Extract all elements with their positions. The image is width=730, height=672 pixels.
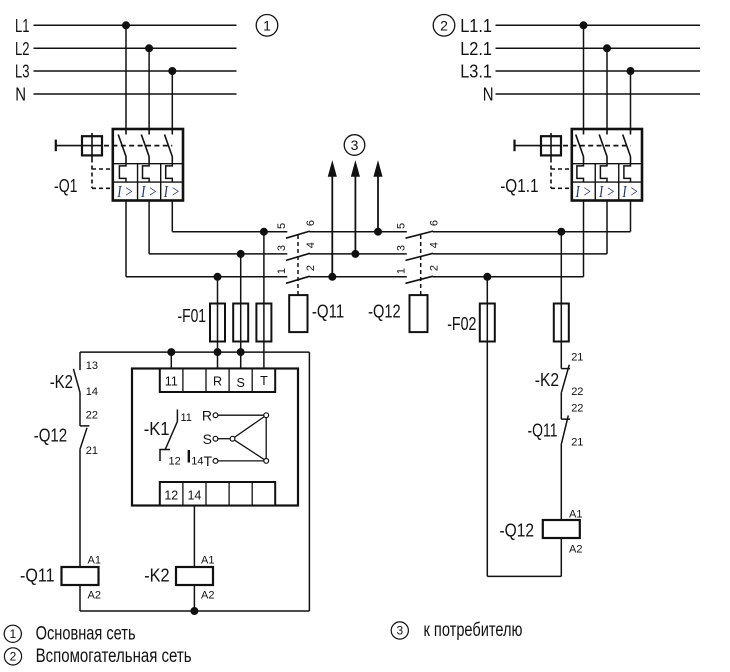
svg-text:L1: L1 — [15, 16, 30, 36]
net label L3.1 (auxiliary) — [460, 62, 492, 82]
wire L1.1 drop to Q1.1 — [583, 25, 585, 129]
label -Q11 drive — [312, 301, 344, 321]
node arrow 1 junction — [329, 273, 336, 280]
net label L3 (main) — [15, 62, 30, 82]
wire L1.1 aux — [496, 24, 701, 26]
node L2 junction — [146, 45, 153, 52]
svg-text:12: 12 — [164, 488, 178, 502]
svg-text:-K2: -K2 — [50, 372, 73, 392]
svg-text:6: 6 — [428, 220, 440, 226]
marker circle 3 — [344, 135, 365, 156]
K1 contact blade — [165, 422, 177, 451]
svg-text:-Q11: -Q11 — [528, 421, 558, 441]
fuse right control — [554, 304, 569, 342]
legend circle 2 — [4, 648, 21, 665]
svg-text:-F02: -F02 — [447, 314, 476, 334]
net label N (auxiliary) — [483, 85, 494, 105]
svg-text:21: 21 — [571, 436, 583, 448]
svg-text:2: 2 — [305, 265, 317, 271]
contactor Q11 drive — [289, 295, 307, 332]
wire Q1 pole1 to row2 — [126, 201, 287, 277]
contactor Q12 contact 5-6 — [396, 220, 441, 238]
wire F02 branch — [486, 277, 488, 577]
svg-text:2: 2 — [10, 650, 17, 664]
wire L3 drop to Q1 — [171, 71, 173, 129]
K1 contact common 11 — [177, 410, 192, 425]
wire R tap — [217, 277, 219, 369]
circuit breaker Q1.1 — [500, 129, 642, 201]
wire K2 to Q11 contact right — [560, 392, 562, 419]
svg-text:L1.1: L1.1 — [460, 16, 492, 36]
node arrow 3 junction — [375, 228, 382, 235]
K1 contact NO 14 — [189, 450, 204, 468]
label -K1 — [144, 419, 170, 439]
wire row6 middle — [310, 231, 407, 233]
svg-text:12: 12 — [169, 456, 181, 468]
svg-text:S: S — [203, 431, 212, 447]
svg-text:I >: I > — [622, 182, 639, 201]
wire row2 middle — [310, 276, 407, 278]
svg-text:-Q1.1: -Q1.1 — [500, 176, 538, 196]
svg-text:6: 6 — [305, 220, 317, 226]
wire Q1 pole3 to row6 — [172, 201, 287, 232]
node arrow 2 junction — [352, 250, 359, 257]
wire L2 main — [34, 47, 237, 49]
svg-text:-Q12: -Q12 — [500, 521, 535, 541]
svg-text:I >: I > — [116, 182, 133, 201]
output arrow 2 — [352, 162, 360, 254]
node R control tap — [214, 349, 221, 356]
wire terminal14 to K2 coil — [193, 506, 195, 568]
svg-text:Вспомогательная сеть: Вспомогательная сеть — [36, 646, 192, 667]
svg-text:11: 11 — [181, 412, 192, 424]
fuse F01 pole T — [256, 304, 271, 342]
fuse F01 pole R — [210, 304, 225, 342]
wire Q1.1 pole2 to row4 — [433, 201, 607, 254]
label -F01 — [178, 306, 207, 326]
wire right aux fuse branch — [560, 232, 562, 369]
wire row4 middle — [310, 253, 407, 255]
wire L2.1 aux — [496, 47, 701, 49]
svg-text:I >: I > — [163, 182, 180, 201]
svg-text:4: 4 — [428, 242, 440, 248]
svg-text:3: 3 — [396, 245, 408, 251]
node T tap — [260, 228, 267, 235]
svg-text:-Q11: -Q11 — [312, 301, 344, 321]
svg-text:I >: I > — [575, 182, 592, 201]
net label L2.1 (auxiliary) — [460, 39, 492, 59]
svg-text:I >: I > — [598, 182, 615, 201]
svg-text:L3: L3 — [15, 62, 30, 82]
svg-text:22: 22 — [571, 403, 583, 415]
contactor Q12 contact 1-2 — [396, 265, 441, 283]
contactor Q12 contact 3-4 — [396, 242, 441, 260]
svg-text:R: R — [202, 408, 212, 424]
marker circle 2 — [433, 14, 455, 36]
svg-text:14: 14 — [191, 456, 203, 468]
svg-text:Основная сеть: Основная сеть — [36, 624, 136, 645]
wire Q12 coil down — [560, 538, 562, 576]
wire right branch bottom — [487, 575, 561, 577]
wire right rail — [308, 352, 310, 611]
node L3.1 junction — [627, 68, 634, 75]
wire Q11 coil to rail — [79, 585, 81, 611]
svg-text:4: 4 — [305, 242, 317, 248]
wire control bus — [80, 351, 309, 353]
svg-text:11: 11 — [165, 375, 178, 389]
K1 top terminal strip 11-R-S-T — [160, 369, 275, 393]
legend circle 3 — [391, 622, 408, 639]
coil Q12 — [500, 509, 583, 556]
svg-text:14: 14 — [86, 386, 98, 398]
K2 contact 13-14 — [50, 360, 98, 398]
node L2.1 junction — [604, 45, 611, 52]
wire Q12 contact to Q11 coil — [79, 449, 81, 567]
wire L2 drop to Q1 — [148, 48, 150, 129]
node K2 rail junction — [191, 608, 198, 615]
K1 phase sequence indicator — [202, 408, 269, 470]
legend text main network — [36, 624, 136, 645]
wire Q1 pole2 to row4 — [149, 201, 287, 254]
wire bottom rail — [80, 610, 309, 612]
relay K1 box — [132, 369, 298, 506]
contactor Q12 drive — [410, 295, 428, 332]
svg-text:S: S — [237, 376, 245, 390]
svg-text:1: 1 — [396, 268, 408, 274]
wire L3.1 aux — [496, 70, 701, 72]
fuse F01 pole S — [233, 304, 248, 342]
legend circle 1 — [4, 625, 21, 642]
net label N (main) — [15, 85, 26, 105]
svg-text:-Q1: -Q1 — [54, 176, 78, 196]
svg-text:3: 3 — [276, 245, 288, 251]
node S tap — [237, 250, 244, 257]
contactor Q11 contact 5-6 — [276, 220, 317, 238]
coil K2 — [144, 555, 214, 602]
wire N main — [34, 93, 237, 95]
svg-text:21: 21 — [86, 445, 98, 457]
wire L3 main — [34, 70, 237, 72]
K1 bottom terminal strip 12-14 — [160, 482, 275, 506]
Q12 mechanical link — [420, 235, 422, 295]
wire L2.1 drop to Q1.1 — [606, 48, 608, 129]
output arrow 1 — [328, 162, 336, 277]
wire S tap — [240, 254, 242, 369]
svg-text:I >: I > — [140, 182, 157, 201]
node terminal11 tap — [168, 349, 175, 356]
svg-text:к потребителю: к потребителю — [424, 620, 523, 641]
svg-text:A1: A1 — [201, 555, 214, 567]
svg-text:1: 1 — [276, 268, 288, 274]
node right fuse tap — [558, 228, 565, 235]
fuse F02 — [480, 304, 495, 342]
Q11 mechanical link — [297, 235, 299, 295]
svg-text:-Q12: -Q12 — [34, 426, 68, 446]
node L1.1 junction — [580, 22, 587, 29]
svg-text:L3.1: L3.1 — [460, 62, 492, 82]
svg-text:N: N — [483, 85, 494, 105]
wire L1 drop to Q1 — [125, 25, 127, 129]
svg-text:T: T — [203, 453, 212, 469]
node S control tap — [237, 349, 244, 356]
svg-text:-F01: -F01 — [178, 306, 207, 326]
label -F02 — [447, 314, 476, 334]
svg-text:3: 3 — [351, 137, 359, 153]
svg-text:-Q12: -Q12 — [368, 301, 401, 321]
contactor Q11 contact 1-2 — [276, 265, 317, 283]
wire L3.1 drop to Q1.1 — [630, 71, 632, 129]
svg-text:22: 22 — [86, 410, 98, 422]
node F02 tap — [484, 273, 491, 280]
wire terminal 11 drop — [170, 352, 172, 368]
svg-text:T: T — [260, 374, 268, 388]
wire N aux — [496, 93, 701, 95]
node R tap — [214, 273, 221, 280]
svg-text:3: 3 — [396, 624, 403, 638]
wire Q11 contact to Q12 coil — [560, 443, 562, 520]
svg-text:5: 5 — [396, 223, 408, 229]
wire Q1.1 pole1 to row2 — [433, 201, 584, 277]
wire L1 main — [34, 24, 237, 26]
svg-text:R: R — [213, 375, 222, 389]
legend text auxiliary network — [36, 646, 192, 667]
circuit breaker Q1 — [54, 129, 183, 201]
Q12 NC contact 22-21 — [34, 410, 98, 457]
svg-text:N: N — [15, 85, 26, 105]
svg-text:21: 21 — [571, 351, 583, 363]
svg-text:14: 14 — [187, 488, 201, 502]
svg-text:A1: A1 — [88, 555, 101, 567]
svg-text:A1: A1 — [569, 509, 582, 521]
svg-text:A2: A2 — [88, 590, 101, 602]
svg-text:1: 1 — [263, 17, 271, 33]
wire Q1.1 pole3 to row6 — [433, 201, 631, 232]
legend text to consumer — [424, 620, 523, 641]
K2 NC contact 21-22 right — [535, 351, 584, 398]
node L1 junction — [123, 22, 130, 29]
K1 contact NC 12 — [160, 450, 181, 468]
net label L2 (main) — [15, 39, 30, 59]
svg-text:22: 22 — [571, 386, 583, 398]
coil Q11 — [20, 555, 101, 602]
wire K2 to Q12 contact — [79, 392, 81, 426]
Q11 NC contact 22-21 right — [528, 403, 584, 449]
wire control to K2 contact — [79, 352, 81, 370]
svg-text:2: 2 — [440, 17, 448, 33]
svg-text:5: 5 — [276, 223, 288, 229]
net label L1 (main) — [15, 16, 30, 36]
node L3 junction — [169, 68, 176, 75]
svg-text:A2: A2 — [569, 543, 582, 555]
svg-text:A2: A2 — [201, 590, 214, 602]
marker circle 1 — [256, 14, 278, 36]
wire K2 coil to rail — [193, 585, 195, 611]
svg-text:L2.1: L2.1 — [460, 39, 492, 59]
svg-text:-K1: -K1 — [144, 419, 170, 439]
svg-text:-K2: -K2 — [535, 370, 559, 390]
svg-text:-Q11: -Q11 — [20, 566, 55, 586]
wire T tap — [263, 232, 265, 369]
svg-text:1: 1 — [9, 627, 16, 641]
label -Q12 drive — [368, 301, 401, 321]
svg-text:13: 13 — [86, 360, 98, 372]
svg-text:L2: L2 — [15, 39, 30, 59]
output arrow 3 — [374, 162, 382, 232]
net label L1.1 (auxiliary) — [460, 16, 492, 36]
svg-text:2: 2 — [428, 265, 440, 271]
svg-text:-K2: -K2 — [144, 566, 169, 586]
contactor Q11 contact 3-4 — [276, 242, 317, 260]
